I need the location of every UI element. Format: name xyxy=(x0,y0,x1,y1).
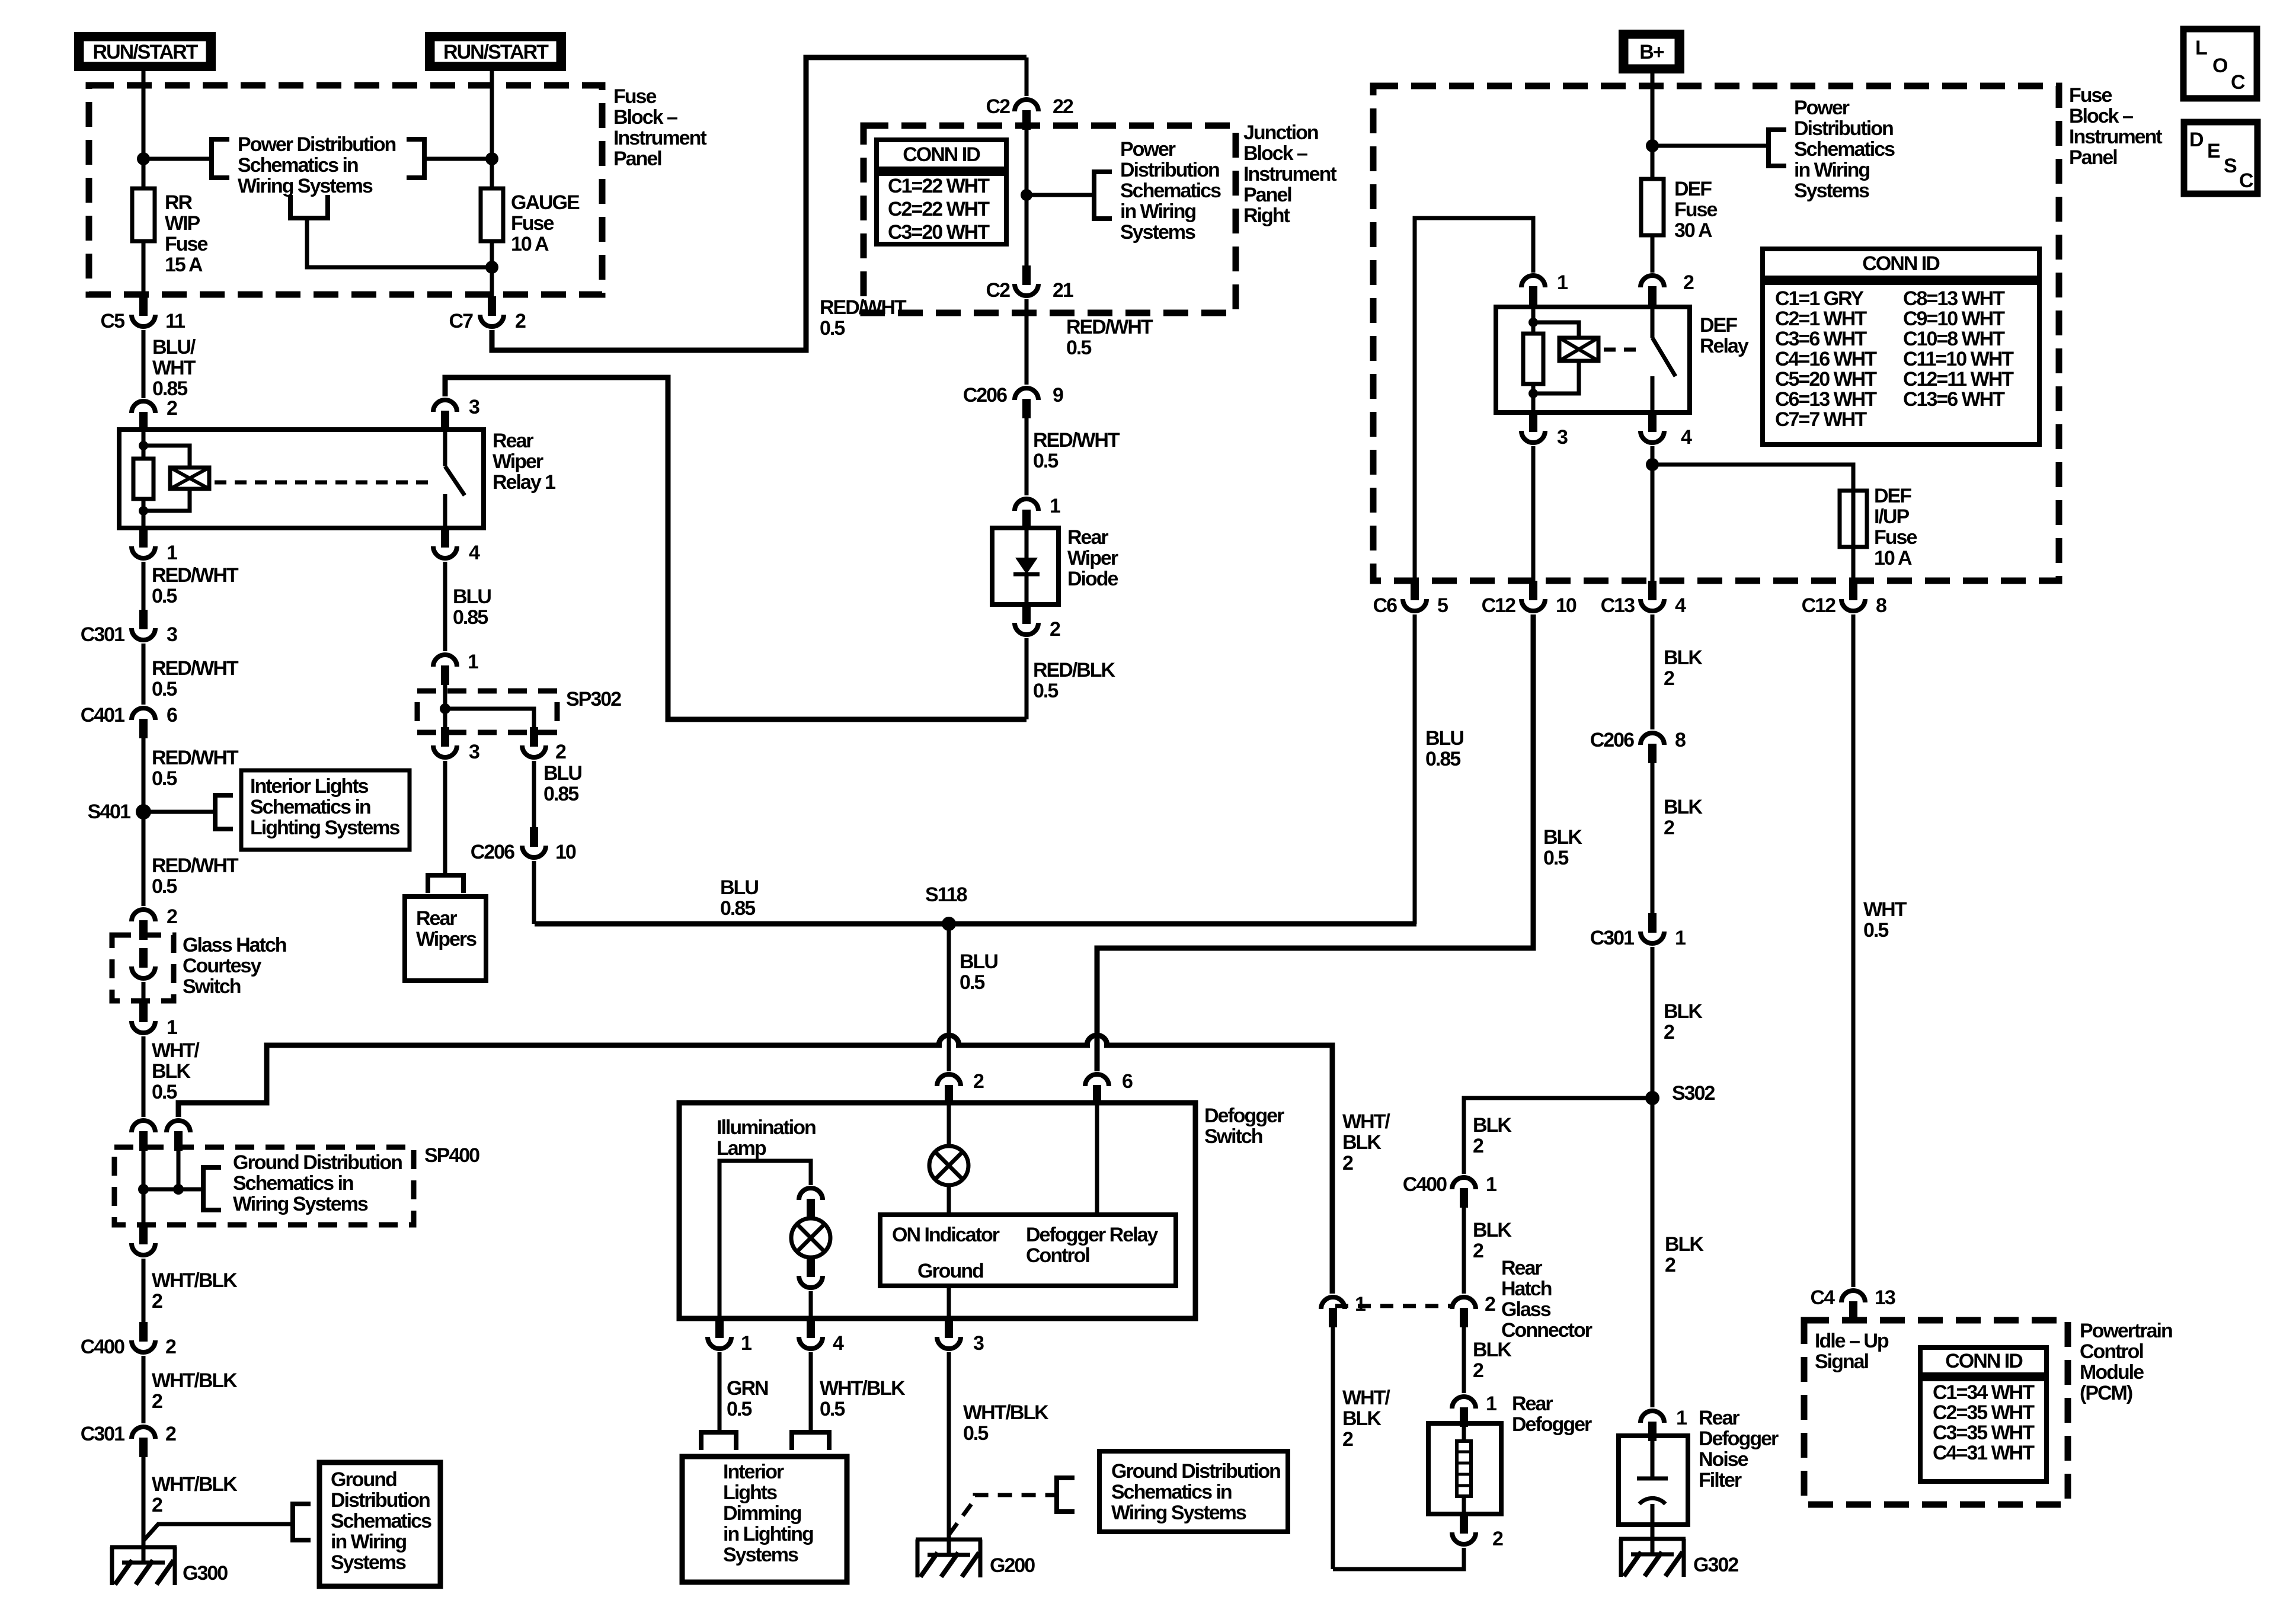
svg-text:1: 1 xyxy=(1355,1293,1366,1315)
svg-text:WHT/: WHT/ xyxy=(152,1039,200,1062)
connector 3 below DEF relay xyxy=(1529,412,1537,432)
svg-text:Illumination: Illumination xyxy=(717,1116,816,1139)
connector 2 below diode xyxy=(1022,604,1031,624)
svg-text:Switch: Switch xyxy=(1204,1125,1262,1148)
svg-text:Glass Hatch: Glass Hatch xyxy=(183,934,286,956)
svg-text:BLK: BLK xyxy=(1473,1219,1512,1241)
svg-text:1: 1 xyxy=(1676,1407,1687,1429)
svg-text:0.5: 0.5 xyxy=(963,1422,988,1445)
svg-text:BLK: BLK xyxy=(1543,826,1582,849)
svg-text:C206: C206 xyxy=(1590,729,1634,751)
bracket right of Power Distribution text xyxy=(407,139,424,178)
wire diode to RED/BLK loop xyxy=(1025,638,1029,719)
svg-text:C2=22 WHT: C2=22 WHT xyxy=(888,198,990,220)
connector 1 at diode xyxy=(1015,499,1038,511)
connector C12 pin 8 xyxy=(1849,581,1857,600)
svg-text:Switch: Switch xyxy=(183,975,241,998)
svg-text:WHT/BLK: WHT/BLK xyxy=(820,1377,906,1400)
svg-text:0.85: 0.85 xyxy=(720,897,755,920)
box Rear Defogger Noise Filter xyxy=(1619,1436,1688,1525)
svg-text:Instrument: Instrument xyxy=(1243,163,1336,185)
svg-text:WHT/: WHT/ xyxy=(1342,1387,1390,1409)
svg-text:C3=20 WHT: C3=20 WHT xyxy=(888,221,990,244)
DEF relay dashed link xyxy=(1604,348,1643,352)
svg-text:Distribution: Distribution xyxy=(1120,159,1219,181)
wire C301-1 to S302 xyxy=(1651,947,1655,1105)
svg-text:2: 2 xyxy=(165,1423,176,1445)
svg-text:2: 2 xyxy=(1664,667,1674,690)
CONN ID table (PCM) xyxy=(1920,1347,2046,1481)
svg-text:Schematics: Schematics xyxy=(331,1510,431,1532)
fuse GAUGE 10 A xyxy=(481,188,503,241)
dashed box SP302 xyxy=(417,691,557,732)
svg-text:2: 2 xyxy=(152,1390,162,1413)
connector below SP400 xyxy=(139,1225,148,1244)
svg-text:1: 1 xyxy=(1675,927,1686,949)
svg-text:G300: G300 xyxy=(183,1562,228,1585)
wire C400-1 to rear hatch connector 2 xyxy=(1462,1208,1466,1294)
wire C7 right and up to top xyxy=(492,57,1027,350)
bracket inside SP400 xyxy=(203,1167,221,1210)
branch to DEF I/UP fuse xyxy=(1652,465,1853,491)
connector C4 pin 13 xyxy=(1841,1291,1865,1302)
svg-text:Schematics in: Schematics in xyxy=(250,796,370,818)
wire noise filter to G302 xyxy=(1651,1525,1655,1539)
relay box DEF Relay xyxy=(1496,307,1690,412)
svg-text:8: 8 xyxy=(1675,729,1686,751)
svg-text:C301: C301 xyxy=(81,1423,124,1445)
svg-text:BLU: BLU xyxy=(720,876,758,899)
svg-text:RED/WHT: RED/WHT xyxy=(1066,316,1153,338)
wire C5 to relay pin2 connector xyxy=(142,330,146,398)
bracket right (junction block) xyxy=(1094,172,1112,219)
svg-text:0.5: 0.5 xyxy=(1033,680,1058,702)
svg-text:Glass: Glass xyxy=(1501,1298,1551,1321)
svg-text:2: 2 xyxy=(1473,1135,1483,1157)
svg-text:0.85: 0.85 xyxy=(453,606,488,629)
svg-text:Signal: Signal xyxy=(1815,1350,1869,1373)
svg-text:BLK: BLK xyxy=(1664,646,1703,669)
svg-text:C12=11 WHT: C12=11 WHT xyxy=(1903,368,2014,391)
svg-text:Schematics in: Schematics in xyxy=(1111,1481,1232,1503)
svg-text:C8=13 WHT: C8=13 WHT xyxy=(1903,287,2005,310)
svg-text:Block –: Block – xyxy=(2069,105,2133,127)
svg-text:WHT/BLK: WHT/BLK xyxy=(152,1269,238,1292)
wire node to bracket xyxy=(1027,193,1094,197)
wire DEF relay pin4 down to C13-4 xyxy=(1651,446,1655,581)
svg-text:BLK: BLK xyxy=(152,1060,191,1083)
svg-text:1: 1 xyxy=(1486,1393,1496,1415)
svg-text:O: O xyxy=(2212,55,2228,77)
svg-text:3: 3 xyxy=(469,741,479,763)
wire S401 down to connector 2 xyxy=(142,812,146,906)
connector 2 at glass hatch switch xyxy=(132,910,155,921)
svg-text:RED/WHT: RED/WHT xyxy=(152,657,239,680)
relay box Rear Wiper Relay 1 xyxy=(119,430,484,528)
svg-text:Distribution: Distribution xyxy=(331,1489,430,1512)
bracket at Interior Lights box xyxy=(215,795,233,829)
wire S302 down to noise filter xyxy=(1651,1105,1655,1407)
svg-text:ON Indicator: ON Indicator xyxy=(892,1224,1000,1246)
svg-text:RR: RR xyxy=(165,191,193,214)
fuse DEF I/UP 10 A xyxy=(1840,491,1867,547)
splice S118 xyxy=(942,917,956,931)
ground G302 xyxy=(1619,1539,1686,1577)
svg-text:Right: Right xyxy=(1243,204,1290,227)
wire to connector 1 below glass hatch box xyxy=(142,982,146,1003)
svg-text:11: 11 xyxy=(165,310,185,332)
defogger switch inner label box xyxy=(880,1215,1176,1286)
svg-text:Powertrain: Powertrain xyxy=(2080,1320,2172,1342)
svg-text:2: 2 xyxy=(152,1494,162,1516)
svg-text:RED/WHT: RED/WHT xyxy=(152,564,239,587)
wire C301 to ground G300 xyxy=(142,1457,146,1547)
connector C301 pin 2 xyxy=(132,1427,155,1439)
svg-text:Panel: Panel xyxy=(1243,184,1291,206)
connector 1 at DEF relay xyxy=(1521,276,1545,287)
wire fuse to C12-8 xyxy=(1851,547,1856,581)
svg-text:G200: G200 xyxy=(990,1554,1035,1577)
svg-text:Rear: Rear xyxy=(1501,1257,1542,1279)
svg-text:C206: C206 xyxy=(471,841,514,863)
DEF relay switch contact xyxy=(1651,306,1655,338)
svg-text:Relay 1: Relay 1 xyxy=(493,471,555,494)
svg-text:2: 2 xyxy=(1473,1240,1483,1262)
svg-text:C3=35 WHT: C3=35 WHT xyxy=(1933,1422,2035,1444)
wire C6-5 down to BLU rail xyxy=(1413,614,1417,924)
svg-text:Block –: Block – xyxy=(1243,142,1307,165)
svg-text:BLK: BLK xyxy=(1665,1233,1704,1256)
svg-text:S118: S118 xyxy=(925,884,967,906)
svg-text:Wiring Systems: Wiring Systems xyxy=(1111,1502,1246,1524)
CONN ID table (junction block) xyxy=(877,140,1006,244)
svg-text:1: 1 xyxy=(1486,1173,1496,1196)
connector C400 pin 1 xyxy=(1452,1177,1476,1189)
svg-text:Ground: Ground xyxy=(331,1468,396,1491)
dashed box Glass Hatch Courtesy Switch xyxy=(112,935,174,1001)
svg-text:WHT: WHT xyxy=(1863,898,1907,921)
svg-text:C4=31 WHT: C4=31 WHT xyxy=(1933,1442,2035,1464)
splice S302 xyxy=(1645,1091,1659,1105)
svg-text:C4: C4 xyxy=(1811,1286,1835,1309)
connector C401 pin 6 xyxy=(132,708,155,720)
svg-text:WHT/BLK: WHT/BLK xyxy=(152,1473,238,1496)
svg-text:Idle – Up: Idle – Up xyxy=(1815,1330,1889,1352)
svg-text:Panel: Panel xyxy=(613,148,661,170)
wire S401 to bracket xyxy=(143,810,215,814)
svg-text:WHT/: WHT/ xyxy=(1342,1110,1390,1133)
connector C7 pin 2 xyxy=(488,296,496,316)
illumination lamp xyxy=(791,1218,830,1257)
branch to ground distribution bracket xyxy=(143,1524,293,1541)
svg-text:Fuse: Fuse xyxy=(165,233,207,255)
fuse RR WIP 15 A xyxy=(132,188,155,241)
wire C2-22 into junction block xyxy=(1025,129,1029,269)
box Rear Wipers xyxy=(405,897,486,981)
DEF relay coil branch xyxy=(1533,322,1579,393)
svg-text:DEF: DEF xyxy=(1700,314,1737,337)
svg-text:C7: C7 xyxy=(449,310,474,332)
svg-text:C: C xyxy=(2239,169,2253,192)
svg-text:8: 8 xyxy=(1876,594,1886,617)
svg-text:Systems: Systems xyxy=(723,1544,798,1566)
diode symbol xyxy=(1025,529,1029,559)
svg-text:Fuse: Fuse xyxy=(1674,199,1717,221)
wire C401 to S401 xyxy=(142,738,146,812)
connector 3 below switch xyxy=(945,1318,953,1338)
dashed box SP400 xyxy=(114,1147,414,1225)
connector 4 below switch xyxy=(807,1318,815,1338)
bracket left of Power Distribution text xyxy=(212,139,229,178)
power tag RUN/START (right) xyxy=(425,32,566,71)
ground wire to pin 3 xyxy=(947,1286,951,1318)
svg-text:Block –: Block – xyxy=(613,106,677,129)
svg-text:BLU/: BLU/ xyxy=(152,336,196,359)
svg-text:I/UP: I/UP xyxy=(1874,505,1909,528)
wire relay4 to SP302 pin1 xyxy=(443,562,447,651)
svg-text:4: 4 xyxy=(1681,426,1692,449)
node on pin4 wire xyxy=(1646,458,1659,471)
connector 2 below SP302 xyxy=(530,727,538,747)
connector 3 below SP302 xyxy=(441,727,449,747)
svg-text:Wiper: Wiper xyxy=(1067,547,1118,569)
svg-text:Interior: Interior xyxy=(723,1461,784,1483)
wire SP302-2 to C206-10 xyxy=(532,761,536,827)
svg-text:1: 1 xyxy=(1557,271,1568,294)
svg-text:0.5: 0.5 xyxy=(960,971,984,994)
svg-text:CONN ID: CONN ID xyxy=(903,143,980,166)
svg-text:Defogger: Defogger xyxy=(1204,1105,1284,1127)
svg-text:Interior Lights: Interior Lights xyxy=(250,775,369,798)
svg-text:BLK: BLK xyxy=(1342,1131,1382,1154)
svg-text:2: 2 xyxy=(1342,1428,1353,1451)
svg-text:BLU: BLU xyxy=(960,950,997,973)
wire C206-10 down to S118 rail xyxy=(532,861,536,924)
svg-text:RED/WHT: RED/WHT xyxy=(152,747,239,769)
svg-text:1: 1 xyxy=(1050,495,1060,517)
switch contact inside glass hatch box xyxy=(139,948,148,968)
svg-text:RED/BLK: RED/BLK xyxy=(1033,659,1116,681)
svg-text:Schematics in: Schematics in xyxy=(233,1172,353,1195)
wire DEF relay pin3 down to C12-10 xyxy=(1531,446,1536,581)
connector C13 pin 4 xyxy=(1648,581,1657,600)
connector C400 pin 2 xyxy=(139,1322,148,1342)
wires down to interior lights box xyxy=(718,1352,722,1432)
dashed box PCM xyxy=(1804,1320,2068,1505)
connector 1 at rear defogger xyxy=(1452,1397,1476,1409)
connector 1 at SP302 xyxy=(433,655,457,667)
connector 2 at DEF relay xyxy=(1641,276,1664,287)
ground G300 xyxy=(110,1547,177,1585)
coil node top xyxy=(139,441,148,450)
svg-text:BLU: BLU xyxy=(453,585,491,608)
wire to DEF relay pin 1 xyxy=(1415,218,1533,581)
svg-text:0.5: 0.5 xyxy=(820,317,845,340)
svg-text:30 A: 30 A xyxy=(1674,219,1712,242)
wire relay1 to C301 xyxy=(142,562,146,610)
svg-text:C13=6 WHT: C13=6 WHT xyxy=(1903,388,2005,411)
svg-text:C12: C12 xyxy=(1802,594,1835,617)
svg-text:S401: S401 xyxy=(88,801,130,823)
dashed link rear hatch glass connector xyxy=(1335,1304,1451,1308)
svg-text:S: S xyxy=(2224,155,2237,177)
svg-text:DEF: DEF xyxy=(1674,178,1712,200)
svg-text:C5=20 WHT: C5=20 WHT xyxy=(1775,368,1877,391)
DEF relay X-box xyxy=(1559,338,1598,361)
bracket above interior lights box (right) xyxy=(792,1432,829,1450)
svg-text:C206: C206 xyxy=(963,384,1007,406)
svg-text:Defogger: Defogger xyxy=(1699,1427,1779,1450)
svg-text:0.5: 0.5 xyxy=(1543,847,1568,869)
svg-text:Wiring Systems: Wiring Systems xyxy=(233,1193,368,1215)
svg-text:C10=8 WHT: C10=8 WHT xyxy=(1903,328,2005,350)
svg-text:Systems: Systems xyxy=(1120,221,1195,244)
svg-text:Relay: Relay xyxy=(1700,335,1749,357)
svg-text:2: 2 xyxy=(1683,271,1694,294)
svg-text:(PCM): (PCM) xyxy=(2080,1382,2132,1404)
svg-text:in Lighting: in Lighting xyxy=(723,1523,813,1545)
svg-text:3: 3 xyxy=(1557,426,1568,449)
svg-text:C12: C12 xyxy=(1482,594,1515,617)
svg-text:3: 3 xyxy=(973,1332,984,1355)
svg-text:0.5: 0.5 xyxy=(1066,337,1091,359)
svg-text:Ground Distribution: Ground Distribution xyxy=(233,1151,402,1174)
svg-text:0.5: 0.5 xyxy=(152,767,177,790)
svg-text:CONN ID: CONN ID xyxy=(1945,1350,2023,1372)
svg-text:Fuse: Fuse xyxy=(511,212,554,235)
connector C2 pin 22 xyxy=(1025,57,1029,96)
svg-text:3: 3 xyxy=(167,623,177,646)
relay switch contact xyxy=(443,431,447,466)
svg-text:C11=10 WHT: C11=10 WHT xyxy=(1903,348,2014,370)
wire from down-bracket to below GAUGE fuse xyxy=(307,218,492,267)
svg-text:Systems: Systems xyxy=(331,1551,406,1574)
svg-text:10 A: 10 A xyxy=(511,233,549,255)
svg-text:0.5: 0.5 xyxy=(152,678,177,700)
svg-text:0.85: 0.85 xyxy=(1425,748,1460,770)
svg-text:2: 2 xyxy=(152,1290,162,1313)
wire C2-21 to C206-9 xyxy=(1025,299,1029,385)
svg-text:Instrument: Instrument xyxy=(613,127,706,149)
svg-text:C301: C301 xyxy=(1590,927,1634,949)
svg-text:9: 9 xyxy=(1053,384,1063,406)
wire C12-8 down to C4-13 xyxy=(1851,614,1856,1287)
connector C301 pin 1 xyxy=(1648,913,1657,933)
svg-text:0.5: 0.5 xyxy=(152,875,177,898)
junction block dashed box xyxy=(864,126,1236,313)
svg-text:2: 2 xyxy=(515,310,526,332)
node below B+ xyxy=(1646,139,1659,152)
svg-text:B+: B+ xyxy=(1639,41,1664,63)
wire GAUGE fuse to C7 xyxy=(490,241,494,296)
svg-text:Defogger: Defogger xyxy=(1512,1413,1592,1436)
svg-text:6: 6 xyxy=(1122,1070,1133,1093)
dashed branch to ground distribution bracket xyxy=(949,1495,1057,1535)
relay dashed actuation link xyxy=(215,481,436,485)
fuse block dashed box (instrument panel, right) xyxy=(1373,86,2059,581)
connector 4 below relay xyxy=(441,528,449,548)
svg-text:L: L xyxy=(2195,37,2207,59)
svg-text:Filter: Filter xyxy=(1699,1469,1742,1491)
defogger switch box xyxy=(679,1103,1195,1318)
svg-text:1: 1 xyxy=(468,651,478,673)
svg-text:Systems: Systems xyxy=(1794,180,1869,202)
svg-text:C1=34 WHT: C1=34 WHT xyxy=(1933,1381,2035,1404)
svg-text:2: 2 xyxy=(1473,1359,1483,1382)
svg-text:Lights: Lights xyxy=(723,1481,777,1504)
DEF relay coil resistor xyxy=(1531,306,1536,334)
svg-text:Distribution: Distribution xyxy=(1794,117,1893,140)
svg-text:in Wiring: in Wiring xyxy=(1794,159,1869,181)
wire DEF fuse to relay pin 2 xyxy=(1651,235,1655,273)
svg-text:4: 4 xyxy=(1675,594,1686,617)
svg-text:BLK: BLK xyxy=(1473,1114,1512,1137)
svg-text:Power: Power xyxy=(1794,97,1850,119)
svg-text:2: 2 xyxy=(1664,817,1674,839)
svg-text:22: 22 xyxy=(1053,95,1073,118)
connector 1 rear hatch glass xyxy=(1321,1297,1345,1309)
wire relay pin3 up to loop xyxy=(445,377,1027,719)
svg-text:0.5: 0.5 xyxy=(727,1398,752,1420)
svg-text:Control: Control xyxy=(2080,1340,2143,1363)
connector 1 below switch xyxy=(715,1318,724,1338)
svg-text:GAUGE: GAUGE xyxy=(511,191,580,214)
svg-text:Power: Power xyxy=(1120,138,1176,161)
DESC corner box xyxy=(2184,122,2257,194)
svg-text:1: 1 xyxy=(167,542,177,564)
svg-text:Schematics in: Schematics in xyxy=(238,154,358,177)
svg-text:C301: C301 xyxy=(81,623,124,646)
svg-text:0.5: 0.5 xyxy=(152,1081,177,1103)
connector C206 pin 9 xyxy=(1015,388,1038,400)
svg-text:RED/WHT: RED/WHT xyxy=(820,296,907,319)
svg-text:Rear: Rear xyxy=(1512,1393,1553,1415)
svg-text:C: C xyxy=(2231,71,2245,94)
wire S118 down to defogger switch xyxy=(947,924,951,1071)
svg-text:Fuse: Fuse xyxy=(613,85,656,108)
svg-text:Module: Module xyxy=(2080,1361,2144,1384)
svg-text:C2=35 WHT: C2=35 WHT xyxy=(1933,1401,2035,1424)
svg-text:S302: S302 xyxy=(1672,1082,1715,1105)
connector C206 pin 8 xyxy=(1641,733,1664,745)
bracket at Ground Distribution box (center) xyxy=(1057,1478,1075,1512)
connector C2 pin 21 xyxy=(1022,265,1031,285)
svg-text:D: D xyxy=(2189,129,2204,151)
svg-text:2: 2 xyxy=(167,905,177,928)
splice wire inside SP302 xyxy=(443,685,447,728)
svg-text:WHT: WHT xyxy=(152,357,196,379)
svg-text:Schematics: Schematics xyxy=(1794,138,1895,161)
wire pin6 inside switch xyxy=(1095,1105,1099,1215)
svg-text:C6: C6 xyxy=(1373,594,1398,617)
svg-text:C13: C13 xyxy=(1601,594,1635,617)
wire SP302-3 to rear wipers bracket xyxy=(443,761,447,875)
LOC corner box xyxy=(2183,29,2257,98)
svg-text:in Wiring: in Wiring xyxy=(1120,200,1195,223)
svg-text:Connector: Connector xyxy=(1501,1319,1593,1342)
wire rear hatch 2 to defogger pin 1 xyxy=(1462,1327,1466,1393)
svg-text:Courtesy: Courtesy xyxy=(183,955,261,977)
wire node to left bracket xyxy=(143,157,212,161)
wire SP400 to C400 xyxy=(142,1259,146,1322)
wire node to bracket xyxy=(1652,144,1769,148)
connector C5 pin 11 xyxy=(139,296,148,316)
wire from RUN/START right down to GAUGE fuse xyxy=(490,71,494,188)
box Ground Distribution Schematics in Wiring Systems (center) xyxy=(1099,1451,1288,1532)
svg-text:0.5: 0.5 xyxy=(820,1398,845,1420)
svg-text:2: 2 xyxy=(165,1336,176,1358)
connector 2 at rear wiper relay xyxy=(132,401,155,413)
